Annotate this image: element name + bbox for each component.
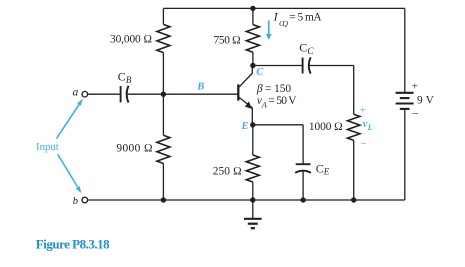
svg-text:750 Ω: 750 Ω [214,35,242,47]
transistor Q1 emitter arrowhead [245,101,252,109]
svg-text:= 150: = 150 [265,83,291,95]
input arrow to a [56,104,80,139]
wire 250 ohm to bottom rail [252,182,254,200]
input arrow to b [57,154,78,188]
wire terminal a to CB [88,93,121,95]
svg-text:E: E [241,121,249,132]
wire top rail [163,7,404,9]
svg-text:CQ: CQ [279,19,288,28]
svg-text:= 50 V: = 50 V [268,95,297,107]
node B dot [161,92,166,97]
svg-text:−: − [412,106,419,120]
wire node E down to 250 ohm [252,125,254,155]
resistor R2 9000 ohm [157,135,170,163]
capacitor CE plates [296,163,311,165]
svg-text:B: B [196,81,204,92]
node E dot [250,122,255,127]
node dot bottom 1000 [351,197,356,202]
ground stem [252,200,254,219]
svg-text:β: β [256,82,263,95]
wire CE branch down [302,125,304,164]
terminal a circle [82,91,88,97]
node dot bottom 250/ground [250,197,255,202]
wire battery top [404,8,406,92]
wire 9000 ohm to bottom rail [162,164,164,201]
node dot bottom CE [300,197,305,202]
wire 1000 ohm to bottom rail [353,140,355,200]
resistor R1 30000 ohm [157,24,170,52]
svg-text:+: + [412,80,418,92]
wire bottom rail [88,199,405,201]
transistor Q1 base bar [237,84,239,100]
ground bars [244,218,262,220]
terminal b circle [82,197,88,203]
wire node E to capacitor CE branch [253,124,303,126]
capacitor CB plates [120,86,122,102]
svg-text:a: a [73,86,79,98]
wire base [163,93,238,95]
svg-text:C: C [256,67,264,78]
svg-text:250 Ω: 250 Ω [213,166,242,178]
node C dot [250,63,255,68]
svg-text:30,000 Ω: 30,000 Ω [110,33,152,45]
resistor R4 1000 ohm [348,114,360,140]
svg-text:9 V: 9 V [417,95,435,107]
wire CC to 1000 ohm branch [309,65,353,67]
wire battery bottom [404,109,406,200]
capacitor CC plates [302,58,304,74]
wire 750 branch upper [252,8,254,24]
svg-text:A: A [261,100,267,109]
wire left branch mid [162,53,164,95]
svg-text:b: b [73,196,78,207]
wire CB to base node [127,93,163,95]
svg-text:Input: Input [36,141,59,153]
ICQ current arrow [268,20,270,35]
node dot bottom 9000 [161,197,166,202]
svg-text:Figure P8.3.18: Figure P8.3.18 [36,237,110,252]
wire node C to capacitor CC [253,65,303,67]
svg-text:1000 Ω: 1000 Ω [309,121,343,133]
svg-text:9000 Ω: 9000 Ω [116,142,152,154]
wire 750 ohm to node C [252,52,254,65]
battery B1 plates [396,92,414,94]
svg-text:+: + [360,105,366,117]
wire CE to bottom rail [302,171,304,200]
transistor Q1 collector lead [239,66,252,88]
wire left branch upper [162,8,164,24]
svg-text:= 5 mA: = 5 mA [289,11,322,23]
transistor Q1 emitter lead [239,97,252,125]
resistor R5 250 ohm [246,155,259,182]
wire left branch lower [162,94,164,135]
svg-text:L: L [367,123,373,132]
wire down to 1000 ohm [353,66,355,115]
node dot top of 750 [250,6,255,11]
resistor R3 750 ohm [246,25,259,53]
svg-text:−: − [361,138,367,150]
